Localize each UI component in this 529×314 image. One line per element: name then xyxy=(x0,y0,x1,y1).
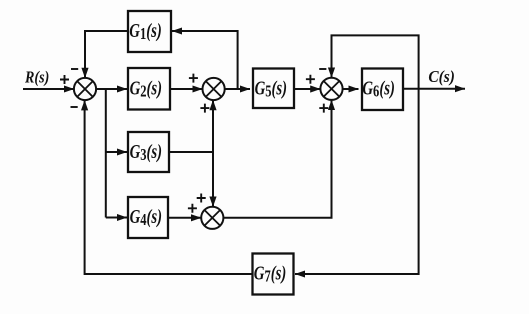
svg-text:G6(s): G6(s) xyxy=(362,78,395,101)
svg-text:C(s): C(s) xyxy=(428,67,455,86)
svg-text:R(s): R(s) xyxy=(24,68,49,87)
svg-text:G3(s): G3(s) xyxy=(130,141,163,164)
svg-text:G2(s): G2(s) xyxy=(130,78,163,101)
svg-text:G4(s): G4(s) xyxy=(130,206,163,229)
svg-text:G1(s): G1(s) xyxy=(129,20,162,43)
svg-text:G5(s): G5(s) xyxy=(255,78,288,101)
svg-text:G7(s): G7(s) xyxy=(254,263,287,286)
